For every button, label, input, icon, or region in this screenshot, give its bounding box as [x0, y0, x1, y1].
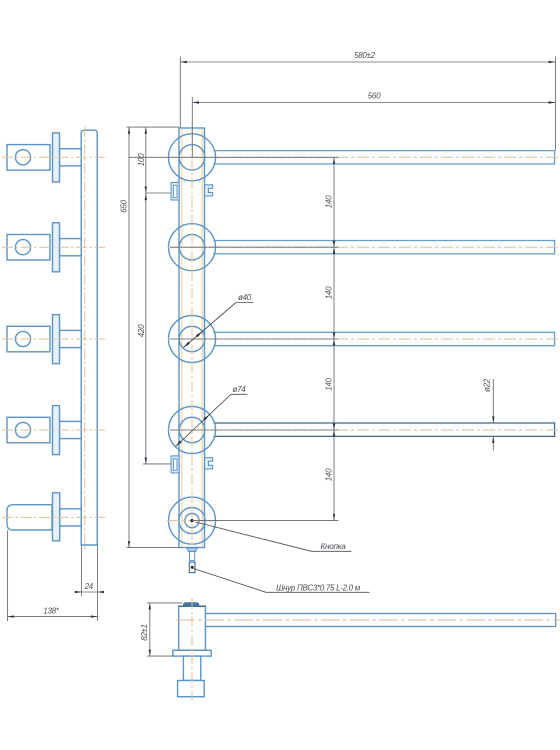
svg-text:82±1: 82±1	[140, 624, 149, 641]
dim 140 chain line	[333, 157, 335, 520]
right clip bottom	[205, 458, 213, 469]
bottom view arm tube	[205, 614, 555, 627]
label Кнопка leader	[196, 522, 312, 551]
unit3 flange	[53, 315, 60, 364]
bottom hub circle middle	[179, 507, 205, 533]
pivot circle 4 inner	[179, 417, 205, 443]
ext line arm2 axis	[170, 246, 338, 248]
ext line arm4 axis	[170, 429, 338, 431]
arm 2 bar	[214, 241, 555, 254]
arm 3 bar	[214, 332, 555, 345]
dim ø74 leader	[176, 394, 232, 446]
pivot circle 3 outer	[169, 316, 216, 363]
dim 650 line	[128, 127, 130, 547]
unit2 flange	[53, 223, 60, 272]
left clip bottom inner	[173, 459, 177, 471]
bottom view body top edge (dark)	[179, 605, 206, 607]
dim 24 / 138 ext right	[96, 546, 98, 621]
dim 100/420 line	[145, 127, 147, 464]
svg-text:140: 140	[325, 468, 334, 481]
cord plug dot	[191, 566, 194, 569]
arm unit 2 centerline	[2, 246, 105, 248]
arm unit 4 centerline	[2, 429, 105, 431]
bottom view arm boss (cap)	[184, 603, 199, 606]
arm 2 centerline	[168, 246, 558, 248]
dim 24 line	[75, 591, 105, 593]
button center dot	[190, 519, 193, 522]
arm 1 bar	[214, 151, 555, 164]
arm 4 bar (dark, dimensioned ø22)	[214, 423, 555, 436]
unit1 arm end block	[7, 145, 50, 171]
svg-text:24: 24	[84, 582, 94, 591]
svg-text:140: 140	[325, 195, 334, 208]
unit2 arm hole	[15, 240, 30, 255]
bottom view horizontal centerline	[176, 619, 560, 621]
ext line arm1 axis	[129, 156, 339, 158]
unit4 connector	[60, 421, 82, 438]
unit4 arm end block	[7, 417, 50, 443]
right clip top	[205, 185, 213, 196]
ext line hub axis	[192, 520, 338, 522]
column inner wall line left	[181, 129, 183, 547]
dim 138 ext left	[7, 531, 9, 622]
unit5 flange	[53, 493, 60, 541]
wall plate	[81, 130, 97, 545]
unit3 arm end block	[7, 326, 50, 352]
column body	[179, 128, 205, 548]
dim 24 ext left	[80, 546, 82, 597]
unit3 arm hole	[15, 331, 30, 346]
svg-text:140: 140	[325, 286, 334, 299]
dim 650 bottom extension	[127, 547, 180, 549]
pivot circle 2 outer	[169, 224, 216, 271]
unit4 arm hole	[15, 422, 30, 437]
bottom hub button circle	[185, 514, 199, 528]
svg-text:ø22: ø22	[483, 378, 492, 392]
svg-text:138*: 138*	[43, 607, 59, 616]
bottom view stem	[183, 656, 200, 680]
svg-text:ø74: ø74	[233, 385, 247, 394]
ext line arm3 axis	[170, 338, 338, 340]
dim 420 tick to clip	[143, 463, 171, 465]
dim 100 tick to clip	[146, 192, 171, 194]
dim 580±2 / 560 extension right	[554, 57, 556, 151]
column vertical centerline	[191, 122, 193, 553]
pivot circle 4 outer	[169, 407, 216, 454]
dim ø22 line lower	[492, 437, 494, 451]
bottom view hub body	[179, 606, 206, 650]
left clip bottom	[171, 456, 179, 473]
neck below column	[187, 548, 197, 552]
dim 82±1 tick top	[147, 602, 182, 604]
svg-text:100: 100	[137, 153, 146, 166]
unit1 arm hole	[15, 150, 30, 165]
arm unit 3 centerline	[2, 338, 105, 340]
svg-text:420: 420	[137, 324, 146, 337]
pivot circle 1 outer	[169, 134, 216, 181]
dim 560 line	[193, 102, 556, 104]
svg-text:Шнур ПВС3*0.75 L-2.0 м: Шнур ПВС3*0.75 L-2.0 м	[276, 583, 361, 592]
bottom view vertical centerline	[191, 598, 193, 700]
unit3 connector	[60, 330, 82, 347]
svg-text:650: 650	[120, 199, 129, 212]
pivot circle 1 inner	[179, 145, 205, 171]
dim 138 line	[8, 616, 98, 618]
dim ø40 leader	[184, 303, 237, 348]
dim ø22 line upper	[492, 379, 494, 423]
hub horizontal centerline	[167, 520, 217, 522]
arm 1 centerline	[168, 156, 558, 158]
unit4 flange	[53, 406, 60, 455]
unit1 flange	[53, 133, 60, 182]
svg-text:580±2: 580±2	[354, 51, 376, 60]
bottom view wall flange	[173, 650, 211, 656]
unit5 arm pointing to viewer (rounded front)	[7, 505, 52, 530]
cord plug	[189, 562, 195, 573]
cord stem	[190, 552, 195, 561]
dim 580±2 line	[180, 61, 555, 63]
svg-text:140: 140	[325, 377, 334, 390]
unit2 arm end block	[7, 235, 50, 261]
arm unit 1 centerline	[2, 156, 105, 158]
column inner wall line right	[201, 129, 203, 547]
svg-text:ø40: ø40	[238, 293, 252, 302]
arm unit 5 centerline	[2, 516, 105, 518]
svg-text:560: 560	[368, 92, 381, 101]
arm 4 centerline	[168, 429, 558, 431]
dim 650 top extension	[127, 126, 180, 128]
bottom view foot	[178, 681, 205, 697]
pivot circle 3 inner	[179, 326, 205, 352]
dim 82±1 tick bottom	[147, 655, 173, 657]
unit2 connector	[60, 239, 82, 256]
unit1 connector	[60, 149, 82, 166]
bottom hub circle outer	[169, 497, 216, 544]
pivot circle 2 inner	[179, 234, 205, 260]
dim 580±2 extension left	[179, 57, 181, 128]
svg-text:Кнопка: Кнопка	[320, 542, 346, 551]
left clip top	[171, 183, 179, 201]
unit5 connector	[60, 509, 82, 526]
dim 82±1 line	[149, 603, 151, 656]
plate vertical centerline	[84, 126, 86, 549]
label Шнур leader	[194, 569, 267, 593]
dim 560 extension left	[191, 97, 193, 157]
left clip top inner	[173, 185, 177, 197]
arm 3 centerline	[168, 338, 558, 340]
